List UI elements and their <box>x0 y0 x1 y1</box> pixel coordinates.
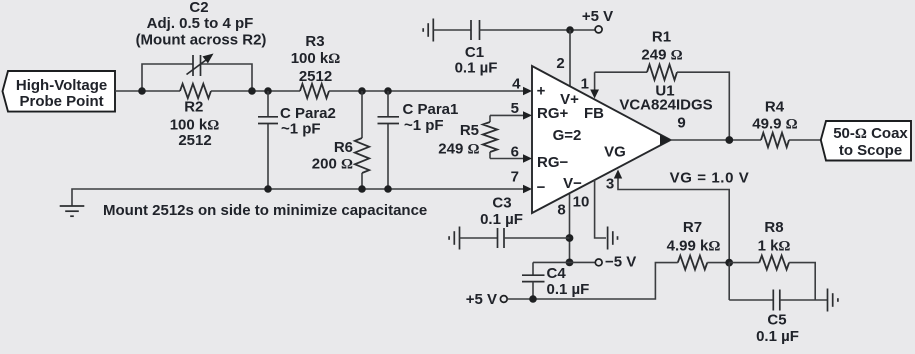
op-amp inside labels <box>537 83 626 197</box>
svg-text:R6: R6 <box>334 139 353 156</box>
svg-text:4.99 kΩ: 4.99 kΩ <box>667 238 721 255</box>
resistor R8 <box>729 256 815 300</box>
R2 labels <box>170 99 220 150</box>
svg-text:49.9 Ω: 49.9 Ω <box>752 116 797 133</box>
ground (C3 left) <box>449 227 459 250</box>
junction at C Para2 top <box>264 87 272 95</box>
svg-text:R4: R4 <box>765 99 785 116</box>
junction pin8/-5V <box>566 259 574 267</box>
capacitor C Para2 <box>258 91 278 189</box>
svg-text:C1: C1 <box>465 44 484 61</box>
junction at R1 right <box>725 136 733 144</box>
wire: +5V to R7 <box>507 263 678 299</box>
capacitor C3 <box>460 228 570 248</box>
svg-text:RG+: RG+ <box>537 105 569 122</box>
svg-text:RG−: RG− <box>537 154 569 171</box>
svg-text:9: 9 <box>677 115 685 132</box>
output wire pin 9 <box>660 135 761 145</box>
ground (C1 left) <box>423 19 433 42</box>
svg-text:1 kΩ: 1 kΩ <box>758 238 791 255</box>
svg-text:C Para1: C Para1 <box>403 101 459 118</box>
wire: node A to R3 <box>211 90 300 92</box>
svg-text:C4: C4 <box>547 265 567 282</box>
svg-text:−5 V: −5 V <box>605 254 636 271</box>
R3 labels <box>291 33 341 85</box>
svg-text:5: 5 <box>511 100 519 117</box>
resistor R1 feedback loop <box>590 65 729 141</box>
svg-text:100 kΩ: 100 kΩ <box>170 117 220 134</box>
junction pin8/C3 <box>566 234 574 242</box>
svg-text:High-Voltage: High-Voltage <box>16 77 107 94</box>
svg-text:7: 7 <box>511 169 519 186</box>
-5 V terminal <box>570 254 637 271</box>
input flag: High-Voltage Probe Point <box>3 71 116 112</box>
capacitor C5 branch <box>729 263 827 311</box>
svg-text:VG = 1.0 V: VG = 1.0 V <box>670 170 750 187</box>
resistor R2 <box>180 84 211 98</box>
svg-text:R5: R5 <box>460 122 479 139</box>
output flag: 50-ohm Coax to Scope <box>821 121 911 161</box>
svg-text:R8: R8 <box>764 219 783 236</box>
svg-text:C5: C5 <box>767 312 786 329</box>
op-amp U1 triangle <box>532 66 671 213</box>
resistor R7 <box>678 256 708 270</box>
bottom rail wire (pin 7 net) <box>72 189 524 206</box>
R1 labels <box>641 29 682 64</box>
svg-text:+5 V: +5 V <box>466 291 497 308</box>
svg-text:Mount 2512s on side to minimiz: Mount 2512s on side to minimize capacita… <box>103 202 427 219</box>
R6 labels <box>312 139 353 173</box>
C2 labels <box>136 0 267 49</box>
wire: R4 to output flag <box>789 139 821 141</box>
capacitor C Para1 <box>378 91 400 189</box>
ground (bottom left) <box>60 206 85 216</box>
svg-text:2512: 2512 <box>299 68 332 85</box>
svg-text:200 Ω: 200 Ω <box>312 156 353 173</box>
svg-text:Probe Point: Probe Point <box>20 93 104 110</box>
svg-text:+5 V: +5 V <box>582 8 613 25</box>
svg-text:V−: V− <box>563 175 582 192</box>
junction at pin 2 <box>566 26 574 34</box>
pin 4 arrowhead <box>523 87 532 95</box>
svg-text:0.1 µF: 0.1 µF <box>455 60 498 77</box>
capacitor C4 <box>522 262 570 299</box>
C1 labels <box>455 44 498 77</box>
pin 7 arrowhead <box>523 185 532 193</box>
svg-text:Adj. 0.5 to 4 pF: Adj. 0.5 to 4 pF <box>147 15 254 32</box>
node A junction <box>138 87 146 95</box>
wire: R7 to junction <box>707 262 729 264</box>
wire: flag to node A <box>115 90 180 92</box>
wire: R3 to pin 4 <box>329 90 524 92</box>
svg-text:2512: 2512 <box>178 132 211 149</box>
svg-text:0.1 µF: 0.1 µF <box>480 211 523 228</box>
R8 labels <box>758 219 791 255</box>
svg-text:to Scope: to Scope <box>839 142 902 159</box>
resistor R6 <box>355 91 369 189</box>
R7 labels <box>667 219 721 255</box>
svg-text:−: − <box>537 179 546 196</box>
pin 8 wire <box>569 194 571 262</box>
svg-text:~1 pF: ~1 pF <box>404 117 444 134</box>
svg-text:249 Ω: 249 Ω <box>641 47 682 64</box>
svg-text:1: 1 <box>581 75 589 92</box>
ground (C5 right) <box>828 289 838 312</box>
junction at R6 top <box>358 87 366 95</box>
pin 3 VG wire <box>614 170 729 263</box>
svg-text:R2: R2 <box>184 99 203 116</box>
svg-text:VG: VG <box>604 144 626 161</box>
svg-text:R7: R7 <box>683 219 702 236</box>
resistor R3 <box>300 84 329 98</box>
svg-text:~1 pF: ~1 pF <box>281 121 321 138</box>
+5 V terminal (top) <box>582 8 613 33</box>
pin number labels <box>511 55 686 219</box>
svg-text:FB: FB <box>584 105 604 122</box>
svg-text:VCA824IDGS: VCA824IDGS <box>619 97 712 114</box>
junction dots on bottom rail <box>264 185 272 193</box>
C4 labels <box>547 265 590 298</box>
svg-text:R1: R1 <box>652 29 671 46</box>
svg-text:R3: R3 <box>305 33 324 50</box>
resistor R5 <box>483 115 524 158</box>
capacitor C1 <box>433 20 596 40</box>
C5 labels <box>756 312 799 346</box>
svg-text:4: 4 <box>512 76 521 93</box>
wire: pin 2 <box>569 30 571 87</box>
svg-text:C Para2: C Para2 <box>280 105 336 122</box>
svg-text:(Mount across R2): (Mount across R2) <box>136 32 267 49</box>
U1 labels <box>619 83 712 114</box>
svg-text:2: 2 <box>556 55 564 72</box>
pin 10 wire and ground <box>595 180 618 250</box>
svg-text:249 Ω: 249 Ω <box>438 141 479 158</box>
+5 V terminal (bottom) <box>466 291 507 308</box>
svg-text:0.1 µF: 0.1 µF <box>756 328 799 345</box>
svg-text:100 kΩ: 100 kΩ <box>291 50 341 67</box>
pin 6 arrowhead <box>523 154 532 162</box>
resistor R4 <box>761 133 789 147</box>
svg-text:C3: C3 <box>492 195 511 212</box>
svg-text:50-Ω Coax: 50-Ω Coax <box>833 125 908 142</box>
junction R7/R8/VG <box>725 259 733 267</box>
svg-text:8: 8 <box>557 202 565 219</box>
junction at C2 right <box>248 87 256 95</box>
junction C4 bottom <box>529 295 537 303</box>
R5 labels <box>438 122 479 158</box>
svg-text:10: 10 <box>573 194 590 211</box>
svg-text:C2: C2 <box>189 0 208 16</box>
svg-text:3: 3 <box>606 175 614 192</box>
C Para1 labels <box>403 101 459 134</box>
C3 labels <box>480 195 523 229</box>
svg-text:6: 6 <box>511 143 519 160</box>
capacitor C2 (variable, across R2) <box>142 54 252 92</box>
svg-text:G=2: G=2 <box>553 127 582 144</box>
svg-text:+: + <box>537 83 546 100</box>
svg-text:0.1 µF: 0.1 µF <box>547 281 590 298</box>
pin 5 arrowhead <box>523 111 532 119</box>
junction at C Para1 top <box>384 87 392 95</box>
R4 labels <box>752 99 797 133</box>
C Para2 labels <box>280 105 336 138</box>
